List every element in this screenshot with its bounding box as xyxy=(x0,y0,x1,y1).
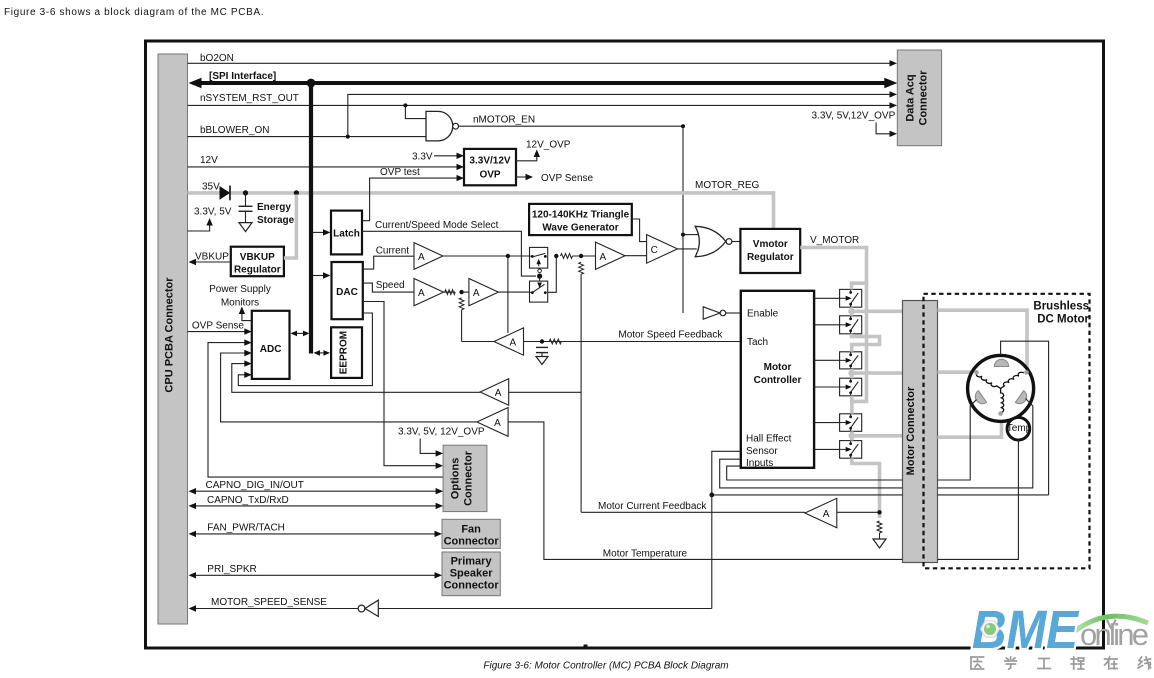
svg-text:Speed: Speed xyxy=(376,280,405,291)
svg-text:A: A xyxy=(473,288,480,299)
svg-text:Data Acq: Data Acq xyxy=(905,74,917,121)
svg-text:OVP: OVP xyxy=(479,170,500,181)
svg-text:nSYSTEM_RST_OUT: nSYSTEM_RST_OUT xyxy=(200,93,299,104)
svg-text:VBKUP: VBKUP xyxy=(240,252,275,263)
svg-text:FAN_PWR/TACH: FAN_PWR/TACH xyxy=(207,522,285,533)
svg-text:Latch: Latch xyxy=(333,229,360,240)
svg-text:3.3V: 3.3V xyxy=(412,152,433,163)
svg-text:V_MOTOR: V_MOTOR xyxy=(810,235,859,246)
svg-text:Sensor: Sensor xyxy=(746,446,778,457)
svg-text:MOTOR_SPEED_SENSE: MOTOR_SPEED_SENSE xyxy=(211,597,327,608)
svg-text:nMOTOR_EN: nMOTOR_EN xyxy=(473,115,535,126)
svg-text:Connector: Connector xyxy=(463,450,475,506)
svg-text:Power Supply: Power Supply xyxy=(209,284,271,295)
svg-text:CAPNO_DIG_IN/OUT: CAPNO_DIG_IN/OUT xyxy=(206,480,304,491)
svg-text:OVP Sense: OVP Sense xyxy=(541,173,594,184)
svg-text:12V_OVP: 12V_OVP xyxy=(526,140,571,151)
svg-text:Temp: Temp xyxy=(1007,423,1032,434)
svg-text:3.3V, 5V, 12V_OVP: 3.3V, 5V, 12V_OVP xyxy=(398,427,485,438)
svg-text:Connector: Connector xyxy=(444,535,500,547)
svg-text:Fan: Fan xyxy=(461,523,481,535)
svg-text:bBLOWER_ON: bBLOWER_ON xyxy=(200,125,269,136)
svg-text:Wave Generator: Wave Generator xyxy=(542,223,618,234)
svg-text:Tach: Tach xyxy=(747,337,768,348)
svg-text:ADC: ADC xyxy=(260,344,282,355)
svg-text:PRI_SPKR: PRI_SPKR xyxy=(207,564,256,575)
svg-text:Motor: Motor xyxy=(764,362,792,373)
svg-text:MOTOR_REG: MOTOR_REG xyxy=(695,180,759,191)
svg-text:Controller: Controller xyxy=(754,375,802,386)
svg-text:VBKUP: VBKUP xyxy=(195,252,229,263)
svg-text:Motor Speed Feedback: Motor Speed Feedback xyxy=(618,330,723,341)
svg-text:Figure 3-6: Motor Controller (: Figure 3-6: Motor Controller (MC) PCBA B… xyxy=(483,661,728,672)
svg-text:OVP Sense: OVP Sense xyxy=(192,321,245,332)
svg-text:A: A xyxy=(600,252,607,263)
svg-text:Motor Connector: Motor Connector xyxy=(905,386,917,475)
svg-text:A: A xyxy=(495,388,502,399)
svg-text:A: A xyxy=(418,252,425,263)
svg-text:Options: Options xyxy=(450,458,462,500)
svg-text:Energy: Energy xyxy=(257,202,291,213)
svg-text:DAC: DAC xyxy=(336,287,358,298)
svg-text:Motor Temperature: Motor Temperature xyxy=(603,548,688,559)
svg-text:Connector: Connector xyxy=(918,70,930,126)
svg-text:Monitors: Monitors xyxy=(221,298,259,309)
svg-text:Vmotor: Vmotor xyxy=(753,239,788,250)
svg-text:EEPROM: EEPROM xyxy=(339,331,350,374)
svg-text:Figure 3-6 shows a block diagr: Figure 3-6 shows a block diagram of the … xyxy=(4,7,264,18)
svg-text:12V: 12V xyxy=(200,155,218,166)
svg-text:CAPNO_TxD/RxD: CAPNO_TxD/RxD xyxy=(207,495,289,506)
svg-text:Brushless: Brushless xyxy=(1033,301,1089,313)
svg-text:Motor Current Feedback: Motor Current Feedback xyxy=(598,501,707,512)
svg-text:120-140KHz Triangle: 120-140KHz Triangle xyxy=(532,210,630,221)
svg-text:CPU PCBA Connector: CPU PCBA Connector xyxy=(164,277,176,393)
svg-text:3.3V/12V: 3.3V/12V xyxy=(469,156,510,167)
svg-text:Enable: Enable xyxy=(747,309,779,320)
svg-text:Regulator: Regulator xyxy=(747,252,794,263)
svg-text:3.3V, 5V,12V_OVP: 3.3V, 5V,12V_OVP xyxy=(812,111,896,122)
svg-text:OVP test: OVP test xyxy=(380,167,420,178)
svg-text:DC Motor: DC Motor xyxy=(1037,314,1089,326)
svg-text:Primary: Primary xyxy=(451,556,493,568)
svg-text:Storage: Storage xyxy=(257,215,295,226)
svg-text:Current/Speed Mode Select: Current/Speed Mode Select xyxy=(375,220,499,231)
svg-text:35V: 35V xyxy=(202,182,220,193)
svg-text:A: A xyxy=(418,288,425,299)
svg-text:Regulator: Regulator xyxy=(234,264,281,275)
svg-text:Hall Effect: Hall Effect xyxy=(746,434,792,445)
svg-text:Current: Current xyxy=(376,246,410,257)
svg-text:Speaker: Speaker xyxy=(450,568,494,580)
svg-text:bO2ON: bO2ON xyxy=(200,53,234,64)
svg-text:A: A xyxy=(510,338,517,349)
svg-text:A: A xyxy=(823,509,830,520)
svg-text:Inputs: Inputs xyxy=(746,458,773,469)
svg-text:3.3V, 5V: 3.3V, 5V xyxy=(194,207,232,218)
svg-text:A: A xyxy=(494,418,501,429)
svg-text:[SPI Interface]: [SPI Interface] xyxy=(209,71,276,82)
svg-text:Connector: Connector xyxy=(444,580,500,592)
svg-text:C: C xyxy=(651,245,658,256)
